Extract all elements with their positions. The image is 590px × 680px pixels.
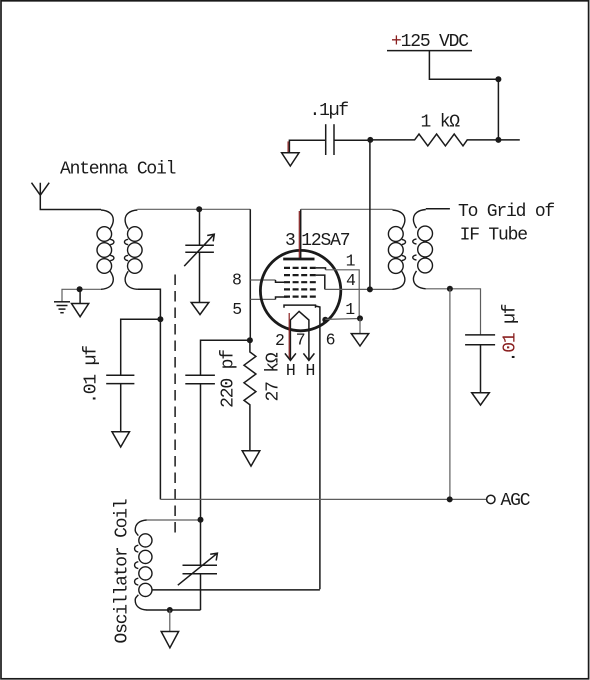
svg-text:12SA7: 12SA7: [301, 231, 349, 251]
wire C3 top lead: [201, 340, 250, 375]
wire row2 to pin 4: [316, 275, 325, 289]
junction R2/C3 node: [247, 337, 253, 343]
junction screen node: [367, 286, 373, 292]
junction decoupling node: [367, 137, 373, 143]
capacitor C3 220pf: [185, 375, 215, 519]
transformer T2 IF primary: [388, 210, 405, 289]
AGC terminal: [487, 495, 495, 503]
plate: [283, 258, 314, 261]
svg-text:1: 1: [345, 300, 355, 319]
chassis ground R2: [242, 451, 260, 466]
junction AGC takeoff: [447, 286, 453, 292]
svg-text:2: 2: [275, 331, 284, 350]
svg-text:1 kΩ: 1 kΩ: [421, 113, 461, 133]
junction T1 primary bottom: [77, 286, 83, 292]
label +125 VDC: [387, 32, 472, 52]
wire T2 output: [426, 208, 450, 210]
grid row 2: [284, 274, 316, 276]
svg-text:AGC: AGC: [501, 491, 531, 511]
svg-text:Oscillator Coil: Oscillator Coil: [113, 499, 133, 643]
svg-text:H: H: [306, 361, 315, 380]
svg-text:3: 3: [285, 231, 295, 251]
oscillator coil L1: [135, 520, 152, 610]
svg-text:H: H: [286, 361, 295, 380]
svg-text:5: 5: [232, 300, 241, 319]
chassis ground C4: [282, 153, 299, 166]
junction shell ground node: [357, 315, 363, 321]
wire plate to T2 primary: [301, 208, 393, 210]
variable capacitor C1 antenna tuning: [184, 209, 214, 302]
resistor R1 1k: [370, 134, 520, 146]
wire screen feed: [369, 140, 371, 290]
transformer T1 antenna coil primary: [97, 210, 114, 289]
capacitor C2 .01uf: [106, 375, 134, 432]
svg-text:27 kΩ: 27 kΩ: [264, 352, 284, 401]
plate lead pin 3: [299, 209, 300, 258]
capacitor C5 .01uf right: [465, 335, 495, 393]
grid row 4: [284, 288, 316, 290]
corner dot B+ feed: [495, 76, 501, 82]
svg-text:8: 8: [232, 271, 241, 290]
earth ground: [54, 302, 70, 313]
wire to C2: [121, 319, 161, 375]
svg-text:.1µf: .1µf: [310, 101, 349, 121]
tube envelope: [260, 250, 340, 330]
svg-text:4: 4: [346, 271, 356, 290]
chassis ground C1: [191, 303, 209, 315]
junction osc ground node: [167, 607, 173, 613]
chassis ground C5: [472, 393, 490, 405]
grid row 5: [284, 296, 316, 298]
svg-text:6: 6: [326, 331, 335, 350]
wire AGC bus: [160, 498, 486, 500]
wire grid pin 8: [250, 280, 287, 282]
tube V1 12SA7: [260, 209, 340, 360]
svg-text:+125 VDC: +125 VDC: [391, 32, 469, 52]
svg-text:1: 1: [346, 252, 356, 271]
grid row 1: [284, 267, 316, 269]
resistor R2 27k: [244, 340, 256, 450]
wire T1 primary bottom return: [62, 289, 101, 301]
chassis ground shell: [351, 318, 368, 346]
svg-text:.01 µf: .01 µf: [501, 304, 521, 362]
wire T2 secondary bottom: [426, 289, 481, 335]
antenna: [32, 183, 50, 196]
wire T1 secondary top: [137, 208, 250, 210]
transformer T1 antenna coil secondary: [124, 210, 142, 289]
svg-text:220 pf: 220 pf: [219, 350, 239, 408]
variable capacitor C6 osc tuning: [178, 520, 218, 610]
grid row 3: [284, 281, 316, 283]
wire osc coil top lead: [147, 519, 201, 521]
junction C2 node: [157, 316, 163, 322]
wire B+ feed: [429, 51, 498, 140]
wire T1 secondary bottom to AGC corner: [137, 289, 160, 499]
mechanical gang link (dashed): [174, 275, 176, 534]
junction AGC: [447, 496, 453, 502]
junction R1 right node: [495, 137, 501, 143]
chassis ground antenna return: [72, 289, 89, 316]
chassis ground C2: [112, 432, 130, 447]
wire osc tap to pin 6: [152, 589, 320, 591]
wire osc coil bottom: [147, 609, 201, 611]
heater: [285, 311, 315, 360]
svg-text:IF Tube: IF Tube: [460, 226, 528, 246]
wire antenna lead: [40, 195, 101, 209]
wire cathode to pin 6: [316, 306, 320, 589]
junction osc grid node: [198, 517, 204, 523]
junction tuned grid node: [196, 206, 202, 212]
shell pin dot: [322, 317, 328, 323]
wire grid pin 5: [250, 297, 287, 299]
capacitor C4 .1uf: [288, 124, 370, 155]
wire pins 8/5 bus: [249, 209, 251, 340]
svg-text:.01 µf: .01 µf: [82, 346, 102, 404]
wire grid row1 to shell ground: [316, 268, 359, 319]
transformer T2 IF secondary: [413, 210, 433, 289]
wire AGC drop: [449, 289, 451, 500]
svg-text:To Grid of: To Grid of: [458, 202, 554, 222]
chassis ground oscillator: [161, 610, 178, 648]
wire shell to ground: [325, 318, 360, 321]
svg-text:7: 7: [296, 331, 305, 350]
svg-text:Antenna Coil: Antenna Coil: [60, 160, 176, 180]
cathode: [284, 305, 316, 308]
wire pin 4 to screen node: [325, 288, 393, 290]
